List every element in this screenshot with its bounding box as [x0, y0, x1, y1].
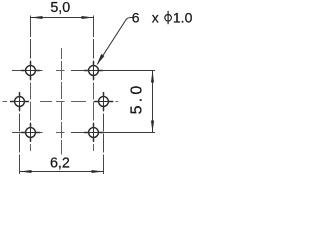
center line row middle (y=101.5) [3, 101, 119, 103]
svg-text:5.0: 5.0 [128, 83, 145, 115]
svg-text:1.0: 1.0 [173, 9, 193, 25]
center line row bottom (y=132.5) [12, 132, 103, 134]
dimension line bottom 6,2 [20, 171, 104, 173]
extension line right from hole BR (y=132.5) [103, 132, 156, 134]
phi diameter symbol [165, 14, 172, 21]
extension line right from hole TR (y=70.5) [103, 70, 156, 72]
arrowhead right dimension top [151, 71, 154, 83]
svg-text:6: 6 [132, 9, 140, 25]
extension line down from hole MR to bottom dimension (x=103.5) [103, 92, 105, 174]
extension line down from hole ML to bottom dimension (x=19.5) [19, 92, 21, 174]
center line row top (y=70.5) [12, 70, 103, 72]
crosshair hole BR [84, 123, 103, 142]
arrowhead right dimension bottom [151, 121, 154, 133]
arrowhead leader [97, 54, 105, 65]
dimension line right 5.0 [152, 71, 154, 133]
leader line for 6 x phi1.0 note [97, 18, 133, 65]
hole MR [99, 97, 109, 107]
dimension line top 5,0 [31, 17, 94, 19]
arrowhead bottom dimension right [92, 170, 104, 173]
svg-text:5,0: 5,0 [50, 0, 70, 16]
svg-text:6,2: 6,2 [50, 156, 70, 172]
crosshair hole MR [94, 92, 113, 111]
center mark bold dashes hole TR [84, 61, 103, 80]
svg-text:x: x [152, 9, 159, 25]
hole BL [26, 128, 36, 138]
center line vertical (main axis x=61.5) [61, 48, 63, 155]
hole ML [15, 97, 25, 107]
crosshair hole TL [21, 61, 40, 80]
hole TL [26, 66, 36, 76]
crosshair hole BL [21, 123, 40, 142]
arrowhead top dimension right [82, 16, 94, 19]
arrowhead top dimension left [31, 16, 43, 19]
crosshair hole ML [10, 92, 29, 111]
center mark bold dashes hole BL [21, 123, 40, 142]
hole TR [89, 66, 99, 76]
center mark bold dashes hole BR [84, 123, 103, 142]
center line / extension column through holes TL and BL (x=30.5) [30, 16, 32, 152]
center line / extension column through holes TR and BR (x=93.5) [93, 16, 95, 152]
arrowhead bottom dimension left [20, 170, 32, 173]
center mark bold dashes hole MR [94, 92, 113, 111]
center mark bold dashes hole TL [21, 61, 40, 80]
crosshair hole TR [84, 61, 103, 80]
hole BR [89, 128, 99, 138]
center mark bold dashes hole ML [10, 92, 29, 111]
